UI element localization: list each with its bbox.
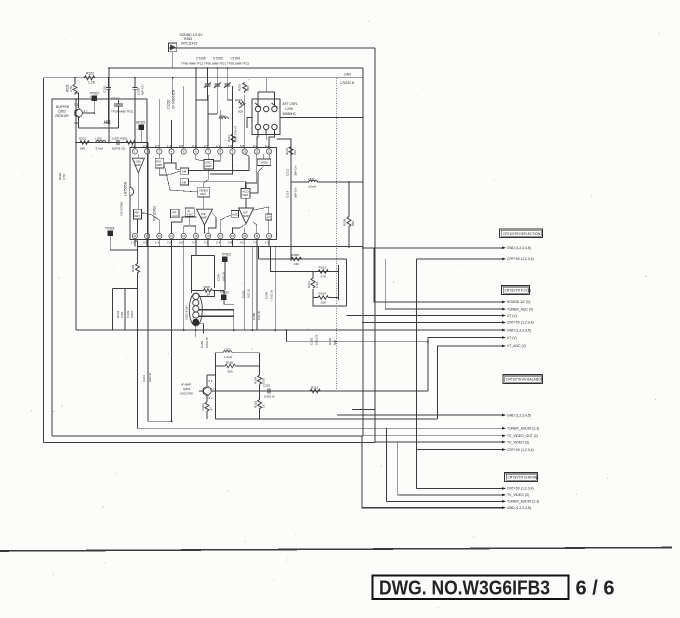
- arrow+label SOUND: [502, 301, 506, 304]
- svg-text:AGC: AGC: [187, 213, 193, 217]
- svg-text:8 7: 8 7: [211, 387, 215, 391]
- svg-text:R208: R208: [343, 218, 347, 226]
- svg-text:500: 500: [333, 340, 337, 345]
- svg-text:C296: C296: [265, 291, 269, 299]
- svg-text:24: 24: [133, 234, 136, 238]
- svg-text:AMP: AMP: [156, 163, 162, 167]
- svg-text:2 2: 2 2: [155, 144, 160, 148]
- svg-text:C307 R301: C307 R301: [112, 137, 128, 141]
- svg-text:2SC815Y: 2SC815Y: [55, 114, 70, 118]
- wire x=172.7 down to pin: [172, 78, 174, 95]
- svg-text:DWG. NO.W3G6IFB3: DWG. NO.W3G6IFB3: [379, 577, 550, 600]
- svg-text:7: 7: [207, 150, 209, 154]
- svg-text:2SC2785: 2SC2785: [180, 391, 193, 395]
- arrow+label GND av: [502, 414, 506, 417]
- arrow+label VT: [502, 314, 506, 317]
- svg-text:CRT&VTR AV BALANCE: CRT&VTR AV BALANCE: [506, 378, 544, 382]
- wire link y=421.3: [148, 420, 172, 422]
- svg-text:7 6: 7 6: [167, 241, 172, 245]
- svg-text:L302: L302: [95, 137, 102, 141]
- svg-text:L201: L201: [104, 119, 111, 123]
- svg-text:TV_VIDEO (3): TV_VIDEO (3): [507, 493, 529, 497]
- arrow+label VT_AGC: [502, 345, 506, 348]
- arrow+label CRT+5V chroma: [502, 487, 506, 490]
- wire inner left x=52: [52, 99, 76, 436]
- test point TP303: [105, 227, 138, 251]
- wire y=182 with coil L207: [291, 180, 363, 182]
- arrow+label TV_VIDEO: [502, 441, 506, 444]
- IC U201 pins bottom row: [132, 233, 271, 238]
- svg-text:36880HC: 36880HC: [283, 112, 297, 116]
- junction dots top buses: [74, 67, 228, 143]
- svg-text:AFT CNFL: AFT CNFL: [283, 102, 298, 106]
- svg-text:CRT&VTR DEFLECTION: CRT&VTR DEFLECTION: [503, 232, 541, 236]
- left small box: [113, 289, 138, 331]
- svg-text:Q202: Q202: [58, 109, 66, 113]
- wire right vertical x=363: [362, 68, 364, 436]
- arrow+label VT av: [502, 336, 506, 339]
- svg-text:C1202: C1202: [167, 99, 171, 109]
- resistor R313 on output: [310, 389, 320, 393]
- coil L203 windings: [189, 293, 202, 326]
- svg-text:TP2A 9MB-TF21: TP2A 9MB-TF21: [111, 110, 134, 114]
- svg-text:3 8: 3 8: [228, 241, 233, 245]
- resistor R215 vertical: [243, 83, 247, 93]
- wire y=341.7 row: [287, 330, 428, 342]
- svg-text:CRT&VTR P.CON: CRT&VTR P.CON: [505, 289, 532, 293]
- svg-text:HGM: HGM: [261, 161, 268, 165]
- svg-text:18: 18: [207, 234, 210, 238]
- svg-text:0.022 B: 0.022 B: [315, 335, 319, 345]
- wire from IC right to x=291: [277, 139, 292, 261]
- svg-text:16: 16: [231, 234, 234, 238]
- svg-text:12: 12: [268, 150, 271, 154]
- svg-text:0.01 B: 0.01 B: [247, 289, 251, 298]
- svg-text:L203 47uH: L203 47uH: [185, 305, 189, 320]
- svg-text:AMP: AMP: [201, 215, 207, 219]
- arrow+label CRT+5V pcon: [502, 321, 506, 324]
- svg-text:CT205: CT205: [213, 57, 223, 61]
- svg-text:R222: R222: [86, 72, 94, 76]
- svg-text:82P B (3): 82P B (3): [112, 147, 125, 151]
- svg-text:ATT: ATT: [266, 216, 271, 220]
- IC internal wiring: [138, 154, 270, 233]
- wire vertical sound x=374: [374, 248, 502, 302]
- coil winding taps double lines: [199, 310, 234, 316]
- svg-text:SOUND 1/2 5V: SOUND 1/2 5V: [180, 33, 204, 37]
- resistor R312: [318, 270, 328, 274]
- arrow+label TV_VIDEO chroma: [502, 494, 506, 497]
- svg-text:560: 560: [246, 86, 250, 91]
- svg-text:2 1: 2 1: [216, 144, 221, 148]
- svg-text:1K: 1K: [262, 404, 266, 408]
- svg-text:AGC: AGC: [232, 212, 238, 216]
- svg-text:8 8: 8 8: [179, 144, 184, 148]
- wire x=76 vertical: [75, 143, 77, 331]
- svg-text:6 5: 6 5: [209, 379, 213, 383]
- wire vertical tuner agc x=385.2: [385, 259, 502, 309]
- svg-text:TUNER_AUDIO (2,3): TUNER_AUDIO (2,3): [507, 427, 539, 431]
- svg-text:27K: 27K: [321, 275, 327, 279]
- svg-text:4.7K: 4.7K: [70, 85, 74, 92]
- svg-text:0.01 B: 0.01 B: [148, 373, 152, 382]
- svg-text:R313: R313: [311, 385, 319, 389]
- svg-text:15K: 15K: [321, 301, 327, 305]
- arrow+label CRT+5V av2: [502, 448, 506, 451]
- IC internal block PIX AMP: [155, 158, 164, 168]
- svg-text:11: 11: [256, 150, 259, 154]
- IC internal block OSC AMP: [204, 159, 214, 169]
- svg-text:1 3: 1 3: [167, 144, 172, 148]
- wires top pins up: [75, 68, 274, 149]
- svg-text:TV_VIDEO_OUT (2): TV_VIDEO_OUT (2): [507, 434, 538, 438]
- svg-text:14: 14: [255, 234, 258, 238]
- wire TV_VIDEO chroma: [398, 494, 502, 496]
- svg-text:4: 4: [171, 150, 173, 154]
- svg-text:R314: R314: [319, 292, 327, 296]
- svg-text:L206: L206: [286, 107, 293, 111]
- coil L202 on row: [96, 141, 106, 143]
- svg-text:TUNER_AUDIO (2,3): TUNER_AUDIO (2,3): [507, 500, 539, 504]
- svg-text:AMP: AMP: [205, 164, 211, 168]
- IC internal block AM 1: [180, 168, 188, 174]
- svg-text:GND (1,2,3,4,5): GND (1,2,3,4,5): [507, 246, 531, 250]
- svg-text:C211: C211: [142, 375, 146, 382]
- svg-text:C214: C214: [286, 190, 290, 198]
- svg-text:0.01 B: 0.01 B: [270, 290, 274, 299]
- svg-text:6 / 6: 6 / 6: [576, 577, 615, 600]
- junction dot: [348, 181, 350, 183]
- svg-text:5.6K: 5.6K: [262, 378, 266, 384]
- svg-text:AGC: AGC: [172, 214, 178, 218]
- connector label box CRT&VTR DEFLECTION: [500, 229, 543, 238]
- title separator line: [0, 548, 672, 552]
- coil L203 grounded end dot: [192, 319, 199, 326]
- transistor Q301 IF AMP: [199, 375, 211, 402]
- svg-text:CRT+5V (1,2,3,4): CRT+5V (1,2,3,4): [507, 321, 534, 325]
- junction dots gnd bus: [137, 329, 277, 331]
- svg-text:27: 27: [209, 407, 213, 411]
- IC U201 pin digits: [133, 150, 271, 239]
- IC internal block PIF AMP triangle: [197, 209, 213, 225]
- IC internal block RF AGC: [171, 209, 179, 218]
- svg-text:17: 17: [219, 234, 222, 238]
- IC U201 pin number labels top: [131, 144, 270, 148]
- svg-text:GND (1,2,3,4,5): GND (1,2,3,4,5): [507, 413, 531, 417]
- svg-text:DET: DET: [243, 193, 249, 197]
- wire vertical tuner audio x=386.3: [385, 428, 387, 501]
- svg-text:R304: R304: [254, 376, 258, 384]
- svg-text:CT201: CT201: [111, 97, 120, 101]
- wire x=137.5 down to tuner audio row: [138, 273, 503, 429]
- svg-text:C213: C213: [286, 168, 290, 176]
- IC internal block AM 2: [180, 179, 188, 185]
- wire R308 row y=258.9: [259, 258, 347, 260]
- arrow+label GND pcon: [502, 329, 506, 332]
- wire GND deflection: [362, 247, 502, 249]
- IC internal block SIF AMP triangle: [239, 208, 254, 224]
- IC internal block VIDEO DET: [198, 187, 210, 197]
- resistor R314: [318, 296, 328, 300]
- svg-text:23: 23: [146, 234, 149, 238]
- svg-text:39P CH: 39P CH: [294, 166, 298, 176]
- svg-text:2 4: 2 4: [216, 241, 221, 245]
- svg-text:AMP: AMP: [135, 163, 141, 167]
- bus wire y=142.5 row: [76, 142, 148, 144]
- svg-text:3: 3: [159, 150, 161, 154]
- wire outer bottom y=442.5: [44, 442, 376, 444]
- svg-text:8 8: 8 8: [179, 241, 184, 245]
- svg-text:5: 5: [183, 150, 185, 154]
- wire top y=68: [109, 67, 363, 69]
- svg-text:CF M5063ZN: CF M5063ZN: [172, 89, 176, 109]
- transistor Q202 buffer: [75, 93, 95, 128]
- svg-text:500: 500: [238, 110, 243, 114]
- capacitor C201 vertical: [106, 84, 111, 93]
- arrows and labels right section: [502, 246, 539, 510]
- svg-text:1.2K: 1.2K: [88, 81, 96, 85]
- wire verticals caps below IC: [196, 247, 275, 337]
- wire VT av: vertical x=427.9 from output row: [428, 338, 502, 392]
- wire collector row y=352.8 with coil L302: [216, 351, 260, 419]
- resistor R222 on bus: [84, 76, 95, 80]
- wire TV_VIDEO av: [375, 441, 502, 443]
- trimmer R216: [239, 101, 246, 108]
- svg-text:19: 19: [194, 234, 197, 238]
- title block DWG box: [373, 575, 615, 599]
- svg-text:C275: C275: [242, 290, 246, 298]
- svg-text:56P CH: 56P CH: [141, 85, 145, 95]
- wire bus y=330.1 (gnd) long to right connector: [76, 329, 505, 331]
- svg-text:L207: L207: [308, 177, 315, 181]
- wire bus just below IC y=246.7: [138, 246, 364, 248]
- wires IF amp nets: [207, 353, 438, 419]
- svg-text:CT206: CT206: [196, 57, 206, 61]
- svg-text:R215: R215: [238, 83, 242, 91]
- wire row y=366 with resistor R305: [216, 364, 260, 368]
- svg-text:CRT+5V (1,2,3,4): CRT+5V (1,2,3,4): [507, 487, 534, 491]
- arrow+label GND deflection: [502, 247, 506, 250]
- wire VT pcon: [347, 315, 502, 317]
- AFT coil T201 box: [252, 99, 280, 135]
- coil T301 box: [192, 256, 215, 293]
- wire GND pcon (continues bus y=330.1): [502, 329, 505, 331]
- wire outer top y=48: [169, 47, 375, 49]
- svg-text:R306: R306: [328, 337, 332, 345]
- wire CRT+5V av: [417, 449, 502, 451]
- wire AFT stems: [247, 78, 274, 140]
- connector label box CRT&VTR CHROMA: [505, 473, 540, 482]
- main IC U201: [130, 148, 277, 240]
- test point TP301: [220, 291, 230, 305]
- svg-text:1 4: 1 4: [155, 241, 160, 245]
- svg-text:VIF (CRB): VIF (CRB): [153, 206, 157, 221]
- wire diode stem: [172, 52, 174, 68]
- wire CRT+5V deflection: [417, 258, 502, 260]
- svg-text:C284: C284: [216, 273, 220, 281]
- IC U201 pins top row: [132, 149, 271, 154]
- svg-text:R305: R305: [131, 264, 135, 272]
- svg-text:R283: R283: [184, 37, 192, 41]
- svg-text:SP301: SP301: [136, 121, 146, 125]
- diode D201 sound supply: [169, 43, 177, 52]
- svg-text:AM: AM: [182, 180, 187, 184]
- wire emitter/output row y=391: [211, 390, 428, 392]
- IC internal block IF AGC: [185, 208, 194, 217]
- resistor R221 on row: [80, 141, 89, 145]
- svg-text:VT (V): VT (V): [507, 336, 517, 340]
- resistor R308: [291, 257, 301, 261]
- svg-text:9 2: 9 2: [209, 396, 213, 400]
- wire inner bottom y=436: [52, 435, 363, 437]
- svg-text:5 8: 5 8: [240, 144, 245, 148]
- svg-text:TP202: TP202: [90, 92, 100, 96]
- svg-text:10uH: 10uH: [309, 185, 316, 189]
- svg-text:SOUND 1/2 (V): SOUND 1/2 (V): [507, 300, 530, 304]
- svg-text:TP303: TP303: [105, 227, 115, 231]
- svg-text:TP302: TP302: [222, 253, 232, 257]
- svg-text:13K: 13K: [294, 262, 300, 266]
- wire long vertical x=336.5: [336, 78, 338, 391]
- svg-text:22: 22: [158, 234, 161, 238]
- wire outer left border x=43.5: [43, 78, 45, 443]
- svg-text:R308: R308: [292, 253, 300, 257]
- svg-text:1.2K: 1.2K: [315, 282, 319, 288]
- svg-text:DPC11415: DPC11415: [181, 42, 197, 46]
- svg-text:6: 6: [195, 150, 197, 154]
- resistor R208 vertical: [347, 217, 351, 231]
- svg-text:R311: R311: [307, 281, 311, 288]
- svg-text:C285: C285: [252, 312, 256, 320]
- resistor R303 vertical: [205, 402, 209, 411]
- svg-text:TV_VIDEO (3): TV_VIDEO (3): [507, 440, 529, 444]
- resistor R201 vertical: [73, 84, 77, 95]
- svg-text:6.8K: 6.8K: [120, 312, 124, 318]
- wire trimmer bus: [196, 100, 233, 114]
- resistor R311 vertical: [311, 278, 315, 288]
- svg-text:L204: L204: [219, 114, 226, 118]
- wire from tap down: [196, 310, 234, 334]
- svg-text:R216: R216: [235, 98, 243, 102]
- capacitor C307 on row: [110, 140, 124, 145]
- svg-text:R312: R312: [319, 266, 327, 270]
- wire CRT+5V chroma: [417, 487, 502, 489]
- svg-text:9: 9: [232, 150, 234, 154]
- svg-text:560: 560: [228, 369, 233, 373]
- svg-text:VT_AGC (V): VT_AGC (V): [507, 344, 526, 348]
- svg-text:R302: R302: [254, 400, 258, 408]
- svg-text:TUNER_AGC (V): TUNER_AGC (V): [507, 307, 533, 311]
- wire vertical tv video x=397.7: [397, 442, 399, 495]
- IC internal block AGC: [231, 210, 238, 217]
- svg-text:0.001 B: 0.001 B: [264, 395, 274, 399]
- svg-text:2 7: 2 7: [84, 109, 88, 113]
- svg-text:TP301: TP301: [220, 291, 230, 295]
- wires bottom pins down: [135, 239, 269, 422]
- resistor R301 on row: [126, 141, 135, 145]
- wire y=409.4 stub: [352, 408, 375, 410]
- svg-text:R303: R303: [201, 403, 205, 411]
- IC notch left edge: [130, 187, 134, 196]
- svg-text:8: 8: [220, 150, 222, 154]
- svg-text:CRT+5V (1,2,3,4): CRT+5V (1,2,3,4): [507, 257, 534, 261]
- svg-text:CAN: CAN: [344, 73, 351, 77]
- svg-text:0.001 B: 0.001 B: [205, 338, 209, 348]
- resistor R302 vertical: [258, 400, 262, 409]
- svg-text:Q301: Q301: [183, 387, 191, 391]
- svg-text:C283: C283: [200, 340, 204, 348]
- svg-text:BUFFER: BUFFER: [56, 105, 70, 109]
- wire outer right border x=375: [374, 48, 376, 443]
- wire left vertical x=148: [147, 143, 149, 422]
- svg-text:20: 20: [182, 234, 185, 238]
- svg-text:9MB 5?H 47: 9MB 5?H 47: [234, 126, 238, 142]
- wire VT_AGC av: vertical x=437.6 from row y=419.1: [438, 346, 502, 419]
- svg-text:R224: R224: [285, 147, 289, 155]
- svg-text:0.027: 0.027: [130, 310, 134, 318]
- wire y=271.6: [271, 247, 339, 272]
- connector label box CRT&VTR AV BALANCE: [503, 375, 544, 384]
- svg-text:4 5: 4 5: [240, 241, 245, 245]
- svg-text:GND (1,2,3,4,5): GND (1,2,3,4,5): [507, 506, 531, 510]
- svg-text:IF AMP: IF AMP: [181, 383, 191, 387]
- svg-text:R307: R307: [204, 285, 212, 289]
- wire R307 row: [192, 291, 224, 304]
- svg-text:CT204: CT204: [231, 57, 241, 61]
- test point TP201: [136, 121, 146, 143]
- svg-text:1.2uH: 1.2uH: [224, 355, 232, 359]
- svg-text:C201: C201: [103, 85, 107, 93]
- IC internal block VCO DET: [241, 189, 250, 199]
- svg-text:56K: 56K: [351, 221, 355, 226]
- connector label box CRT&VTR P.CON: [502, 286, 532, 295]
- svg-text:4.7K: 4.7K: [62, 174, 66, 180]
- resistor R224 vertical: [289, 147, 293, 155]
- svg-text:R217: R217: [227, 135, 231, 142]
- svg-text:GND (1,2,3,4,5): GND (1,2,3,4,5): [507, 328, 531, 332]
- wire AFT to border: [280, 116, 363, 118]
- svg-text:R305: R305: [226, 360, 234, 364]
- coil L204 helical: [219, 117, 229, 119]
- wire bus y=77.8: [44, 77, 364, 79]
- svg-text:DET: DET: [200, 192, 206, 196]
- svg-text:27uH: 27uH: [96, 147, 103, 151]
- arrow+label GND chroma: [502, 506, 506, 509]
- trimmer caps CT206 CT205 CT204: [204, 68, 231, 114]
- svg-text:1: 1: [134, 150, 136, 154]
- wire TUNER_AUDIO chroma: [386, 500, 502, 502]
- svg-text:L302: L302: [224, 347, 231, 351]
- resistor R217 vertical: [231, 134, 235, 142]
- svg-text:15: 15: [243, 234, 246, 238]
- trimmer CT201: [114, 100, 123, 110]
- IC U201 pin number labels bottom: [131, 241, 270, 245]
- wire x=349 down: [348, 182, 350, 216]
- deflection group wires: [337, 248, 505, 501]
- svg-text:C282: C282: [310, 337, 314, 345]
- wire corner x=137.5 to tuner audio row: [135, 239, 138, 264]
- test point TP302: [222, 253, 232, 269]
- svg-text:560: 560: [80, 147, 85, 151]
- wire GND av: [337, 414, 502, 416]
- capacitor C203: [133, 84, 138, 93]
- wire vertical crt5v x=416.6: [416, 259, 418, 489]
- coil L201: [104, 122, 110, 124]
- svg-text:10: 10: [243, 150, 246, 154]
- arrow+label TV_VIDEO_OUT: [502, 434, 506, 437]
- resistor R307: [204, 289, 213, 292]
- svg-text:39P CH: 39P CH: [294, 188, 298, 198]
